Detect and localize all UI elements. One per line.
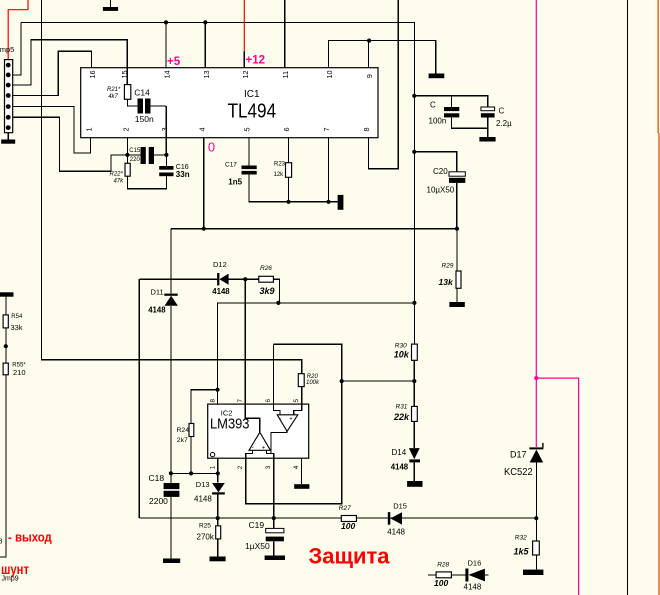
svg-text:10: 10 bbox=[325, 70, 334, 78]
svg-text:3k9: 3k9 bbox=[260, 286, 275, 296]
svg-text:1n5: 1n5 bbox=[228, 178, 242, 187]
svg-text:R31: R31 bbox=[396, 404, 408, 411]
ground G11 under C19 bbox=[265, 556, 285, 561]
svg-text:2: 2 bbox=[237, 465, 244, 469]
svg-text:Jmp9: Jmp9 bbox=[2, 576, 19, 583]
diode D13 bbox=[212, 483, 225, 492]
capacitor C20 polarized bbox=[449, 172, 465, 183]
node pin4 y228 bbox=[202, 227, 206, 231]
wire TL494 pin7 stub bbox=[328, 138, 330, 202]
IC2 LM393 body bbox=[208, 404, 309, 458]
node TL494 pin3 bbox=[164, 153, 168, 157]
wire C18 top stub bbox=[170, 473, 172, 483]
ground G2 top right bbox=[429, 74, 445, 79]
svg-text:+: + bbox=[262, 446, 266, 452]
wire R31 bottom to D14 bbox=[413, 421, 415, 448]
svg-text:R30: R30 bbox=[395, 343, 407, 350]
ground G1 top left bbox=[103, 7, 118, 11]
wire C100n bottom to C2.2u bottom bbox=[452, 117, 488, 128]
wire D13 to y518 rail bbox=[217, 495, 219, 519]
diode D14 bbox=[409, 448, 420, 459]
svg-text:270k: 270k bbox=[197, 533, 215, 542]
resistor R21 bbox=[124, 85, 130, 100]
wire D14 to ground G7 bbox=[413, 463, 415, 481]
wire connector pin3 to TL494 pin15/R21 bbox=[8, 40, 127, 85]
svg-text:шунт: шунт bbox=[1, 561, 29, 577]
svg-text:5: 5 bbox=[293, 399, 300, 403]
wire R29 top stub bbox=[456, 229, 458, 271]
capacitor C18 bbox=[164, 483, 180, 489]
wire C2.2u bottom to ground G5 bbox=[487, 118, 489, 138]
svg-text:+: + bbox=[289, 417, 293, 423]
capacitor C17 bbox=[242, 166, 257, 170]
svg-text:1µX50: 1µX50 bbox=[245, 541, 270, 551]
node R24 bottom bbox=[189, 471, 193, 475]
svg-text:R22*: R22* bbox=[110, 171, 124, 177]
wire TL494 pin6 to R23 bbox=[288, 138, 290, 163]
svg-text:4148: 4148 bbox=[194, 495, 212, 504]
wire pin1 node to D13 bbox=[217, 473, 219, 482]
svg-text:C19: C19 bbox=[249, 520, 265, 530]
TL494 pin numbers bottom bbox=[85, 127, 372, 131]
svg-text:3: 3 bbox=[160, 127, 169, 131]
svg-text:R24: R24 bbox=[177, 427, 190, 434]
capacitor C19 polarized bbox=[266, 528, 284, 541]
node D13 R25 bbox=[216, 516, 220, 520]
wire D12 to R26 bbox=[229, 278, 259, 280]
wire C20 bottom lead bbox=[456, 183, 458, 229]
svg-text:D14: D14 bbox=[392, 448, 407, 457]
wire TL494 pin8 up right side bbox=[369, 0, 399, 169]
svg-text:10k: 10k bbox=[394, 350, 410, 360]
svg-text:D17: D17 bbox=[510, 450, 527, 460]
svg-text:14: 14 bbox=[163, 70, 172, 78]
svg-text:8: 8 bbox=[209, 399, 216, 403]
svg-text:5: 5 bbox=[243, 127, 252, 131]
wire R32 to ground G12 bbox=[535, 555, 537, 570]
svg-text:11: 11 bbox=[281, 71, 290, 79]
resistor R26 bbox=[259, 276, 274, 282]
resistor R20 bbox=[298, 374, 304, 387]
svg-text:C: C bbox=[499, 107, 505, 116]
wire red connector pin1 feed bbox=[8, 0, 28, 65]
svg-text:D15: D15 bbox=[393, 502, 407, 511]
wire R55 down to Jmp8 box corner bbox=[0, 375, 6, 557]
resistor R55 bbox=[3, 363, 8, 375]
node D12 R26 bbox=[243, 277, 247, 281]
svg-text:22k: 22k bbox=[393, 412, 410, 422]
svg-text:R23: R23 bbox=[274, 161, 286, 167]
svg-text:4148: 4148 bbox=[387, 528, 405, 537]
resistor R27 bbox=[341, 516, 356, 522]
wire C14 right to TL494 pin3 node bbox=[165, 106, 167, 155]
wire R21 bottom to C14 left bbox=[128, 99, 138, 106]
wire y228 rail bbox=[171, 228, 457, 230]
node R54 R55 bbox=[4, 344, 8, 348]
ground G3 under Jmp5 bbox=[1, 140, 15, 144]
svg-text:C17: C17 bbox=[225, 161, 237, 168]
svg-text:1k5: 1k5 bbox=[514, 546, 530, 556]
svg-text:R32: R32 bbox=[515, 534, 527, 541]
wire TL494 pin2 stub bbox=[126, 138, 128, 155]
wire IC2 pin7 column to comparator B output bbox=[245, 279, 259, 432]
wire C19 top stub bbox=[273, 518, 275, 528]
svg-text:210: 210 bbox=[13, 368, 26, 377]
svg-text:2k7: 2k7 bbox=[177, 437, 188, 444]
node C18 D11 bbox=[169, 471, 173, 475]
TL494 pin numbers top bbox=[88, 70, 374, 78]
resistor R29 bbox=[456, 271, 461, 288]
wire connector pin2 to bus bbox=[8, 22, 21, 75]
ground G12 under R32 bbox=[523, 570, 543, 575]
ground G10 under R25 bbox=[210, 557, 226, 562]
ground G7 under D14 bbox=[407, 481, 422, 487]
wire y473 rail bbox=[171, 472, 218, 474]
svg-text:4148: 4148 bbox=[212, 287, 230, 296]
svg-text:1: 1 bbox=[85, 127, 94, 131]
svg-text:TL494: TL494 bbox=[228, 100, 277, 123]
svg-text:100k: 100k bbox=[306, 380, 320, 386]
svg-text:0: 0 bbox=[208, 140, 215, 155]
wire R24 branch bbox=[191, 390, 217, 424]
svg-text:- выход: - выход bbox=[8, 530, 52, 545]
svg-text:4148: 4148 bbox=[148, 305, 166, 314]
connector Jmp5 body bbox=[5, 60, 13, 133]
svg-text:8: 8 bbox=[362, 127, 371, 131]
wire R30 bottom to R31 top bbox=[413, 360, 415, 406]
wire D11 column lower bbox=[170, 306, 172, 474]
svg-text:-: - bbox=[252, 445, 254, 451]
capacitor C 2.2u polarized bbox=[481, 107, 495, 118]
svg-text:7: 7 bbox=[322, 127, 331, 131]
wire D16 right lead bbox=[485, 574, 489, 576]
wire IC2 pin1 stub bbox=[217, 458, 219, 473]
svg-text:D11: D11 bbox=[151, 288, 164, 297]
node pin9 bbox=[367, 39, 371, 43]
wire R54 column from bar bbox=[5, 297, 7, 315]
resistor R54 bbox=[3, 315, 8, 328]
node y303 right bbox=[412, 301, 416, 305]
wire C18 bottom to ground G9 bbox=[170, 497, 172, 559]
connector Jmp5 pins bbox=[6, 63, 11, 130]
svg-text:2: 2 bbox=[121, 127, 130, 131]
node C19 rail bbox=[272, 516, 276, 520]
wire TL494 pin11 stub bbox=[284, 0, 286, 68]
node y381 left bbox=[340, 379, 344, 383]
DIODES bbox=[164, 273, 543, 582]
resistor R24 bbox=[189, 424, 194, 437]
svg-text:D12: D12 bbox=[213, 260, 227, 269]
wire C20 top lead bbox=[414, 152, 457, 172]
svg-text:+5: +5 bbox=[167, 56, 181, 68]
svg-text:13: 13 bbox=[202, 70, 211, 78]
wire connector pin5 to TL494 pin1 bbox=[8, 107, 90, 154]
svg-text:15: 15 bbox=[120, 70, 129, 78]
ground G13 bar above R54 bbox=[0, 292, 14, 296]
wire R29 to ground G6 bbox=[456, 288, 458, 302]
IC2 pin numbers bottom bbox=[210, 465, 301, 469]
wire R25 top stub bbox=[217, 518, 219, 526]
diode D11 bbox=[164, 294, 177, 296]
node pin13 bus bbox=[203, 20, 207, 24]
svg-text:LM393: LM393 bbox=[210, 417, 250, 433]
node C20 bottom bbox=[455, 227, 459, 231]
svg-text:C20: C20 bbox=[433, 167, 448, 176]
wire red +12 feed bbox=[243, 0, 245, 52]
IC2 pin1 marker circle bbox=[210, 452, 214, 456]
wire C14 right plate lead bbox=[151, 105, 167, 107]
svg-text:R29: R29 bbox=[442, 262, 454, 269]
capacitor C15 bbox=[141, 147, 146, 164]
svg-text:150n: 150n bbox=[135, 114, 154, 124]
resistor R25 bbox=[216, 526, 221, 539]
ground G8 under IC2 pin4 bbox=[294, 484, 309, 489]
svg-text:C18: C18 bbox=[149, 473, 165, 483]
svg-text:13k: 13k bbox=[439, 277, 454, 287]
node TL494 pin2 bbox=[125, 153, 129, 157]
svg-text:-: - bbox=[280, 416, 282, 422]
svg-text:6: 6 bbox=[265, 399, 272, 403]
wire R28 to D16 bbox=[451, 574, 465, 576]
svg-text:R26: R26 bbox=[260, 265, 272, 272]
wire TL494 pin4 stub bbox=[203, 138, 205, 229]
wire connector pin7 to ground G3 bbox=[7, 128, 9, 140]
wire TL494 pin10 to ground G2 bbox=[329, 41, 436, 74]
svg-text:12: 12 bbox=[241, 70, 250, 78]
wire C15 right to node bbox=[154, 154, 166, 156]
wire R54 to R55 bbox=[5, 328, 7, 363]
svg-text:16: 16 bbox=[88, 70, 97, 78]
wire R20 bottom to comparator A plus bbox=[294, 387, 302, 415]
wire R22 bottom to C16 bottom bbox=[128, 176, 167, 189]
wire magenta protection net vertical bbox=[535, 0, 537, 447]
svg-text:1: 1 bbox=[210, 465, 217, 469]
node pin14 bus bbox=[164, 20, 168, 24]
svg-text:Jmp5: Jmp5 bbox=[0, 45, 14, 54]
wire C100n top stub bbox=[451, 96, 453, 107]
resistor R32 bbox=[533, 541, 540, 555]
resistor R30 bbox=[412, 344, 418, 360]
svg-text:4148: 4148 bbox=[391, 463, 409, 472]
diode D17 zener bbox=[529, 447, 543, 449]
svg-text:R54: R54 bbox=[11, 314, 23, 320]
svg-text:D13: D13 bbox=[196, 480, 210, 489]
wire orange far right vertical bbox=[657, 0, 659, 133]
svg-text:6: 6 bbox=[282, 127, 291, 131]
IC2 pin numbers top bbox=[209, 399, 300, 403]
wire TL494 pin5 to C17 bbox=[248, 138, 250, 166]
ground G9 under C18 bbox=[163, 559, 180, 564]
wire comparator B plus bracket to pin3 column bbox=[267, 450, 274, 518]
wire D12 left lead bbox=[139, 278, 217, 280]
wire TL494 pin12 stub lower part bbox=[243, 52, 245, 68]
wire far right black vertical bbox=[627, 0, 629, 595]
wire R22 top stub bbox=[127, 155, 129, 163]
svg-text:R28: R28 bbox=[437, 562, 449, 569]
wire ground stub G1 bbox=[110, 0, 112, 7]
svg-text:D16: D16 bbox=[468, 558, 482, 567]
RESISTORS bbox=[3, 85, 539, 578]
wire bus +5 y22 down to R30 bbox=[21, 22, 415, 344]
wire IC2 pin4 to ground G8 bbox=[301, 458, 303, 484]
svg-text:Защита: Защита bbox=[309, 544, 390, 569]
diode D16 bbox=[465, 569, 468, 582]
wire y381 link bbox=[342, 380, 415, 382]
svg-text:33n: 33n bbox=[176, 170, 190, 179]
svg-text:KC522: KC522 bbox=[504, 466, 533, 478]
wire R25 to ground G10 bbox=[217, 539, 219, 557]
svg-text:C14: C14 bbox=[134, 87, 150, 97]
svg-text:C15: C15 bbox=[129, 148, 141, 154]
resistor R23 bbox=[286, 163, 292, 178]
svg-text:+12: +12 bbox=[246, 55, 266, 67]
svg-text:4k7: 4k7 bbox=[108, 94, 118, 100]
diode D12 bbox=[217, 273, 219, 285]
wire D17 to R32 node bbox=[535, 463, 537, 541]
wire D11 column upper bbox=[170, 229, 172, 294]
wire comparator A output bbox=[271, 431, 287, 453]
wire comparator A minus input bracket bbox=[274, 344, 281, 415]
wire comparator B minus bracket to pin2 bbox=[246, 450, 253, 458]
svg-text:IC1: IC1 bbox=[244, 89, 260, 100]
wire R26 right down to y303 bbox=[273, 279, 279, 303]
svg-text:2.2µ: 2.2µ bbox=[496, 119, 512, 128]
svg-text:R25: R25 bbox=[199, 523, 211, 530]
resistor R31 bbox=[412, 406, 418, 421]
node R30 R31 bbox=[412, 379, 416, 383]
node cap rail bbox=[412, 94, 416, 98]
node R24 branch bbox=[215, 388, 219, 392]
node IC2 pin1 bbox=[216, 471, 220, 475]
ground G6 under R29 bbox=[449, 302, 464, 307]
svg-text:4: 4 bbox=[293, 465, 300, 469]
capacitor C 100n bbox=[444, 107, 459, 111]
wire D12 rail left and down to y518 rail bbox=[138, 279, 140, 518]
wire TL494 pin14 stub bbox=[165, 22, 167, 67]
op-amp A triangle IC2 bbox=[277, 415, 298, 432]
svg-text:220: 220 bbox=[130, 157, 141, 163]
node C20 rail bbox=[412, 150, 416, 154]
svg-text:9: 9 bbox=[365, 74, 374, 78]
svg-text:4: 4 bbox=[198, 127, 207, 131]
svg-text:33k: 33k bbox=[11, 323, 23, 332]
wire long left vertical to comparator plus via R20 bbox=[42, 0, 302, 374]
CAPACITORS bbox=[138, 99, 460, 497]
wire y518 rail bbox=[139, 517, 536, 519]
wire C19 bottom to ground G11 bbox=[273, 541, 275, 555]
svg-text:2200: 2200 bbox=[149, 496, 168, 506]
wire y303 rail and IC2 pin8 column bbox=[218, 303, 415, 404]
node R23 ground bbox=[286, 200, 290, 204]
resistor R22 bbox=[125, 163, 130, 176]
svg-text:100: 100 bbox=[434, 578, 448, 588]
capacitor C16 bbox=[159, 166, 173, 170]
svg-text:4148: 4148 bbox=[464, 583, 482, 592]
svg-text:12k: 12k bbox=[274, 172, 285, 178]
wire TL494 pin13 stub bbox=[204, 22, 206, 67]
node D17 R32 bbox=[534, 516, 538, 520]
wire R24 bottom stub bbox=[190, 437, 192, 474]
svg-text:R27: R27 bbox=[339, 505, 351, 512]
svg-text:7: 7 bbox=[237, 399, 244, 403]
svg-text:100n: 100n bbox=[429, 117, 447, 126]
node pin7 ground bbox=[326, 200, 330, 204]
svg-text:47k: 47k bbox=[114, 179, 125, 185]
diode D15 bbox=[388, 512, 391, 525]
node magenta branch bbox=[534, 376, 538, 380]
svg-text:C: C bbox=[430, 101, 436, 110]
wire connector pin6 to TL494 pin2 node bbox=[8, 117, 127, 171]
ground G5 under C2.2u bbox=[479, 137, 495, 142]
wire TL494 pin9 stub bbox=[368, 41, 370, 68]
wire R28 left lead bbox=[428, 574, 436, 576]
wire C17 bottom to ground wire bbox=[249, 175, 338, 202]
svg-text:100: 100 bbox=[341, 521, 355, 531]
svg-text:R21*: R21* bbox=[107, 87, 121, 93]
GROUNDS bbox=[0, 7, 543, 575]
IC1 TL494 body bbox=[81, 68, 378, 138]
svg-text:3: 3 bbox=[265, 465, 272, 469]
wire node to C15 left bbox=[127, 154, 140, 156]
op-amp B triangle IC2 bbox=[249, 432, 271, 450]
wire C16 top stub bbox=[165, 155, 167, 166]
wire comparator A minus loop to IC2 pin2 bbox=[246, 344, 342, 503]
svg-text:8: 8 bbox=[0, 539, 3, 546]
wire cap rail y95 bbox=[414, 96, 487, 107]
wire connector pin4 to TL494 pin16 bbox=[8, 51, 91, 95]
capacitor C14 bbox=[138, 99, 144, 114]
resistor R28 bbox=[436, 572, 451, 578]
svg-text:10µX50: 10µX50 bbox=[427, 185, 455, 194]
ground G4 TL494 pin7 sideways bbox=[338, 195, 344, 210]
wire magenta branch right and down bbox=[536, 378, 578, 595]
node R26 y303 bbox=[276, 301, 280, 305]
wire R23 bottom stub bbox=[288, 177, 290, 202]
